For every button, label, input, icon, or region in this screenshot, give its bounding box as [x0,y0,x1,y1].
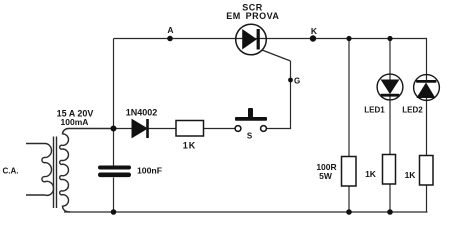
LED1 circle [377,74,403,100]
wire branch 3 resistor to bottom rail corner [426,185,428,212]
svg-text:LED1: LED1 [364,106,385,115]
svg-text:PROVA: PROVA [246,11,280,21]
svg-text:1K: 1K [365,169,377,179]
svg-text:S: S [247,132,253,141]
node G junction dot [288,78,293,83]
wire branch 3 (LED2) top from top rail corner [426,39,429,82]
wire left vertical (top rail down to capacitor) [113,39,115,166]
junction dot bottom rail branch 2 [387,209,393,215]
wire branch 1 (100R) top [348,39,350,157]
junction dot top rail branch 1 [346,36,351,41]
svg-text:5W: 5W [319,171,333,181]
wire gate diagonal from SCR [262,50,291,61]
svg-text:LED2: LED2 [402,106,423,115]
svg-text:1K: 1K [405,170,417,180]
LED2 circle [414,75,440,101]
resistor R3 1K vertical [383,155,396,185]
capacitor C1 100nF plates [98,166,131,178]
wire branch 3 LED2 to resistor [426,96,428,156]
wire bottom rail [64,211,428,213]
junction dot bottom rail branch 1 [346,209,352,215]
svg-text:C.A.: C.A. [3,167,19,176]
LED2 bar and triangle up [416,80,437,98]
wire branch 2 resistor to bottom rail [389,184,391,212]
wire branch 1 (100R) bottom [348,186,350,212]
svg-text:EM: EM [226,11,241,21]
transformer T1 core [54,137,57,209]
wire branch 2 LED1 to resistor [389,96,391,155]
SCR U1 under test: circle [236,24,267,55]
svg-text:A: A [167,25,173,35]
resistor R4 1K vertical [420,156,434,186]
junction dot gate row left [111,126,117,132]
wire branch 2 (LED1) top [389,39,391,81]
wire gate row: diode to resistor to switch [114,128,236,130]
wire capacitor bottom to bottom rail [113,178,115,213]
junction dot top rail branch 2 [387,36,392,41]
diode D1 1N4002 [132,119,149,138]
svg-text:100mA: 100mA [61,117,89,127]
svg-text:100nF: 100nF [137,166,162,176]
svg-text:G: G [294,77,300,86]
node A junction dot [167,36,173,42]
wire top rail from left corner to right corner [114,38,428,40]
SCR U1 triangle and cathode bar [243,29,260,50]
node K junction dot [310,35,316,41]
wire switch to gate riser [266,61,291,129]
LED1 triangle down and bar [381,80,400,97]
resistor R1 1K horizontal [176,121,204,137]
junction dot bottom rail left [111,209,117,215]
transformer T1 secondary winding with top lead to node and bottom lead to rail [60,129,114,213]
transformer T1 primary winding [26,144,54,196]
svg-text:K: K [311,26,318,36]
svg-text:1N4002: 1N4002 [126,108,158,118]
svg-text:1K: 1K [183,141,197,151]
resistor R2 100R 5W vertical [342,157,357,187]
switch S pushbutton [235,108,267,131]
